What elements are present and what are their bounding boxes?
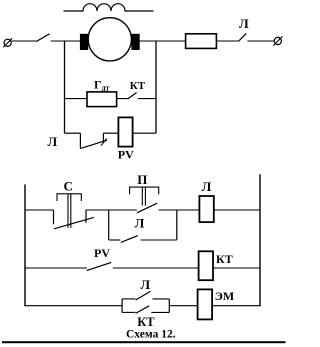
svg-text:РV: РV xyxy=(94,246,110,260)
svg-text:дт: дт xyxy=(102,83,110,92)
svg-text:РV: РV xyxy=(118,148,134,162)
svg-text:Г: Г xyxy=(94,77,102,91)
svg-text:Л: Л xyxy=(48,134,58,149)
svg-text:П: П xyxy=(137,172,147,187)
svg-text:КТ: КТ xyxy=(216,252,233,266)
svg-text:С: С xyxy=(64,178,73,193)
svg-text:Л: Л xyxy=(135,215,145,230)
svg-text:Схема 12.: Схема 12. xyxy=(126,328,176,340)
svg-text:Л: Л xyxy=(239,16,249,31)
svg-text:Л: Л xyxy=(140,277,150,292)
svg-text:КТ: КТ xyxy=(137,315,155,329)
svg-text:Л: Л xyxy=(202,179,212,194)
svg-text:ЭМ: ЭМ xyxy=(215,289,234,303)
svg-text:КТ: КТ xyxy=(130,80,146,92)
